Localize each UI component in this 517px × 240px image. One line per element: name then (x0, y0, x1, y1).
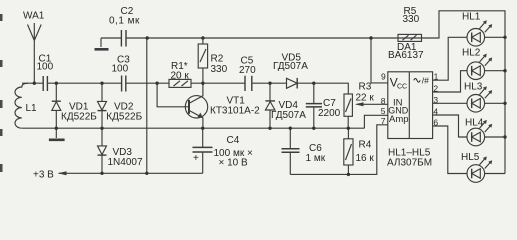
scan edge artifacts (0, 14, 3, 172)
transistor VT1 (185, 96, 207, 118)
node R2 top (201, 36, 204, 39)
capacitor C4 (202, 128, 204, 147)
svg-text:270: 270 (239, 65, 256, 76)
bottom rail left + arrow +3V (59, 172, 203, 174)
svg-text:1N4007: 1N4007 (108, 157, 143, 168)
wire (191, 82, 245, 84)
svg-text:HL1: HL1 (462, 11, 481, 22)
svg-text:/#: /# (422, 76, 429, 86)
pin numbers (381, 72, 439, 128)
svg-text:1: 1 (434, 72, 439, 82)
node base (155, 82, 158, 85)
ground link wire (146, 38, 148, 173)
top rail ground (100, 38, 102, 47)
node Vcc top (369, 36, 372, 39)
mid rail (22, 127, 364, 129)
svg-text:8: 8 (381, 96, 386, 106)
capacitor C2 (121, 30, 126, 47)
svg-text:4: 4 (433, 106, 438, 116)
node VD1 bottom (55, 127, 58, 130)
LED HL4 (467, 120, 505, 146)
node antenna (33, 82, 36, 85)
svg-text:3: 3 (433, 95, 438, 105)
svg-text:22 к: 22 к (356, 92, 375, 103)
wire pin5 GND (364, 115, 387, 128)
svg-text:Amp: Amp (389, 114, 409, 125)
svg-text:0,1 мк: 0,1 мк (109, 16, 140, 27)
wire pin2 (433, 71, 467, 92)
capacitor C6 (289, 128, 291, 148)
node C6 top (289, 127, 292, 130)
svg-text:2: 2 (433, 84, 438, 94)
svg-text:330: 330 (211, 64, 228, 75)
node HL4 right (503, 135, 506, 138)
svg-text:АЛ307БМ: АЛ307БМ (387, 158, 432, 169)
diode VD3 (101, 128, 103, 173)
svg-text:+3 В: +3 В (33, 169, 54, 180)
op-amp U1 DA1 box (388, 72, 433, 139)
wire pin4 (433, 115, 467, 137)
LED HL3 (467, 86, 505, 112)
resistor R4 (344, 139, 353, 165)
svg-text:R3: R3 (359, 81, 372, 92)
capacitor C1 (43, 76, 47, 91)
svg-text:100: 100 (37, 61, 54, 72)
LED HL2 (467, 54, 505, 80)
svg-text:WA1: WA1 (23, 11, 45, 22)
node gnd link bottom (145, 172, 148, 175)
svg-text:100: 100 (112, 64, 129, 75)
wire top rail left (101, 37, 121, 39)
svg-text:R2: R2 (211, 54, 224, 65)
bottom rail right (290, 125, 388, 175)
capacitor C7 (313, 83, 315, 103)
svg-text:6: 6 (433, 118, 438, 128)
inductor L1 (15, 83, 28, 128)
svg-text:5: 5 (381, 106, 386, 116)
node R4 bottom (347, 173, 350, 176)
node VD1 top (55, 82, 58, 85)
svg-text:7: 7 (381, 116, 386, 126)
LED HL5 (467, 156, 505, 182)
diode VD2 (101, 83, 103, 128)
wire main horizontal left (22, 82, 43, 84)
svg-text:HL3: HL3 (464, 82, 483, 93)
wire (47, 82, 121, 84)
node VD4 bottom (268, 127, 271, 130)
svg-text:ГД507А: ГД507А (273, 61, 308, 72)
svg-text:R4: R4 (359, 140, 372, 151)
svg-text:HL5: HL5 (461, 152, 480, 163)
svg-text:1 мк: 1 мк (306, 153, 326, 164)
svg-text:КД522Б: КД522Б (106, 112, 142, 123)
node C7 bottom (312, 127, 315, 130)
svg-text:2200: 2200 (318, 108, 341, 119)
svg-text:КТ3101А-2: КТ3101А-2 (210, 106, 260, 117)
label analog symbol (414, 79, 420, 83)
antenna WA1 (28, 23, 42, 83)
diode VD1 (55, 83, 57, 128)
diode VD5 (287, 78, 298, 88)
node R3 R4 (347, 127, 350, 130)
capacitor C5 (245, 76, 252, 91)
diode VD4 (269, 83, 271, 128)
wire (126, 82, 169, 84)
resistor R5 (398, 34, 422, 41)
svg-text:+: + (193, 153, 199, 164)
node VD2 top (100, 82, 103, 85)
svg-text:L1: L1 (26, 103, 38, 114)
svg-text:ГД507А: ГД507А (271, 110, 306, 121)
svg-text:HL4: HL4 (465, 117, 484, 128)
LED HL1 (467, 20, 505, 46)
resistor R1 (169, 79, 191, 87)
svg-text:КД522Б: КД522Б (61, 112, 97, 123)
svg-text:× 10 В: × 10 В (219, 157, 249, 168)
node HL2 right (503, 69, 506, 72)
wire pin8 arrow (357, 103, 388, 105)
svg-text:C4: C4 (227, 135, 240, 146)
svg-text:HL2: HL2 (462, 47, 481, 58)
resistor R2 (198, 44, 207, 68)
wire (297, 83, 348, 94)
node VD3 bottom (100, 172, 103, 175)
wire top rail (126, 11, 505, 174)
resistor R3 (344, 94, 352, 116)
svg-text:9: 9 (381, 72, 386, 82)
node collector (201, 82, 204, 85)
node emitter (201, 127, 204, 130)
node VD4 top (268, 82, 271, 85)
node VD2 bottom (100, 127, 103, 130)
wire pin3 (433, 102, 467, 104)
mid rail ground (55, 128, 57, 138)
svg-text:330: 330 (403, 14, 420, 25)
node C2 right (146, 36, 149, 39)
wire pin9 Vcc (371, 38, 388, 83)
node HL1 right (503, 36, 506, 39)
svg-text:BA6137: BA6137 (388, 50, 424, 61)
capacitor C3 (122, 76, 126, 92)
IC internal labels (388, 76, 429, 125)
node HL3 right (503, 102, 506, 105)
svg-text:16 к: 16 к (356, 153, 375, 164)
wire pin1 (433, 37, 467, 80)
node C7 top (312, 82, 315, 85)
svg-text:20 к: 20 к (171, 70, 190, 81)
svg-text:CC: CC (397, 84, 407, 91)
wire pin6 (433, 126, 467, 174)
wire (252, 82, 287, 84)
